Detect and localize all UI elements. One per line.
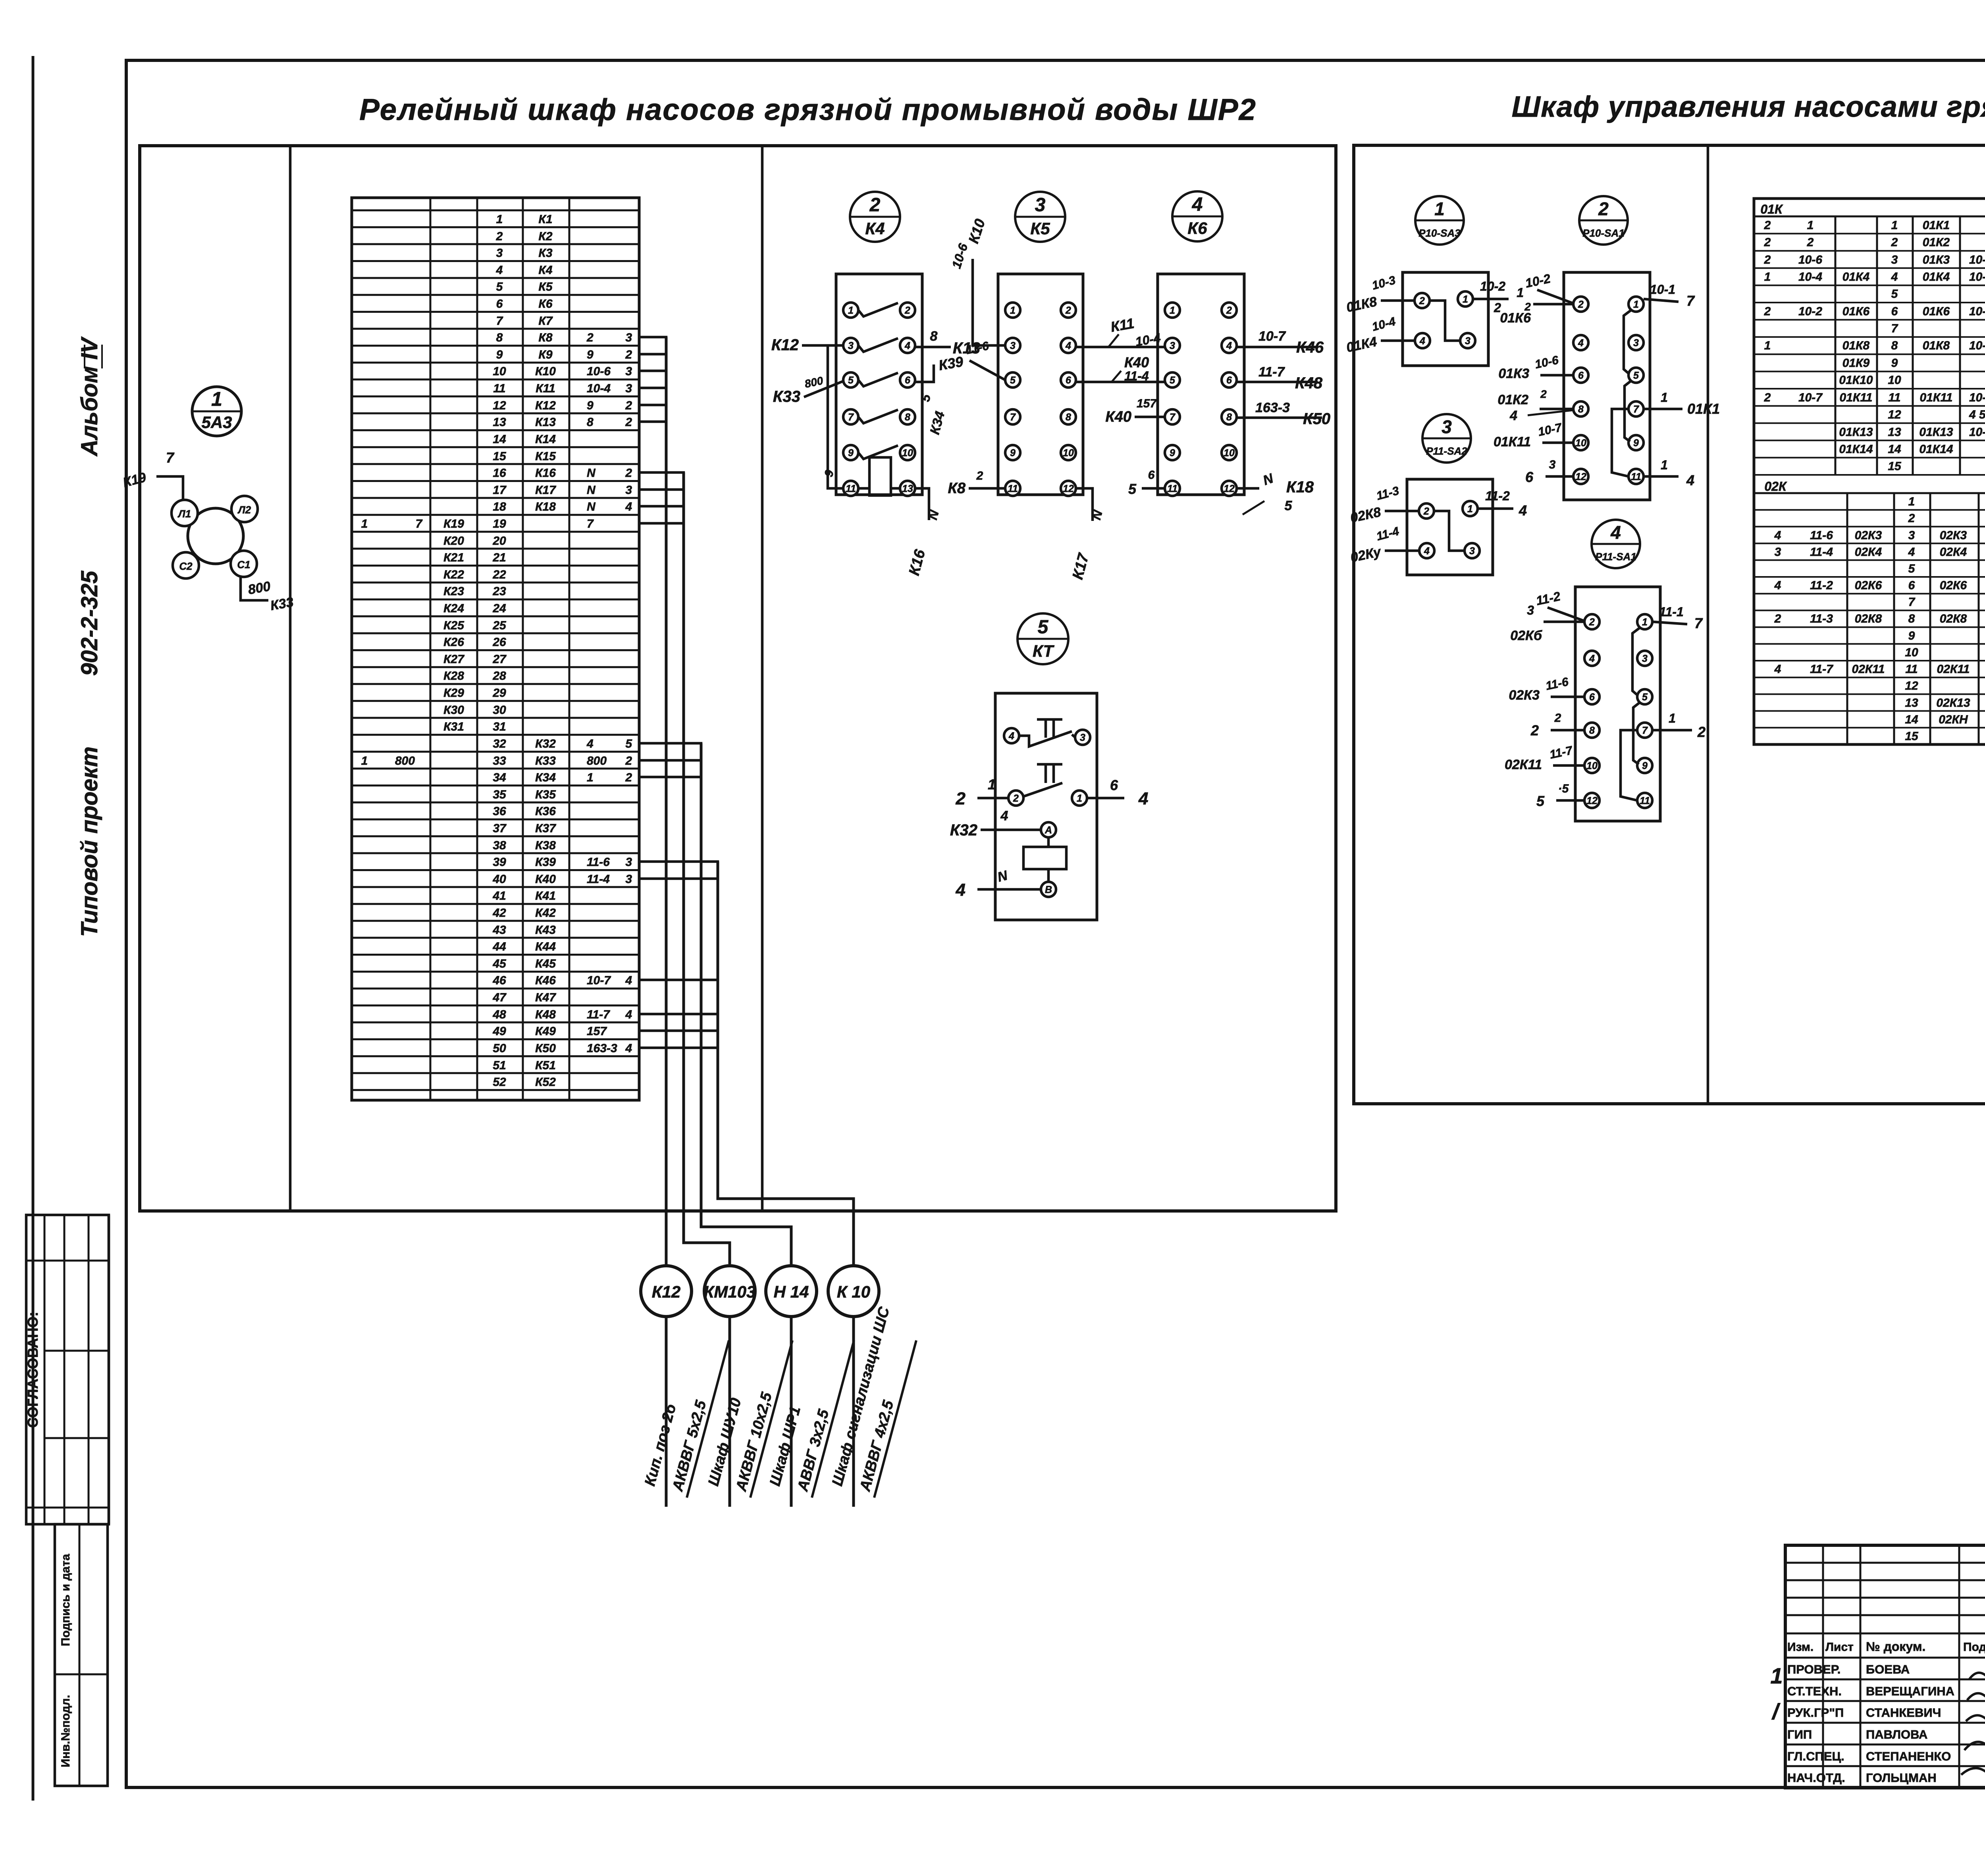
svg-text:10-2: 10-2: [1798, 305, 1822, 318]
K4 pin 3: [843, 338, 858, 353]
svg-text:Шкаф управления насосами гр: Шкаф управления насосами грязной промывн…: [1512, 90, 1985, 123]
wire P10-SA3 pin1 to 10-2: [1473, 298, 1509, 301]
svg-text:3: 3: [848, 340, 854, 351]
svg-text:К34: К34: [535, 771, 556, 784]
cable circle К 10: [828, 1266, 879, 1317]
svg-text:36: 36: [493, 805, 506, 818]
svg-text:5: 5: [848, 375, 854, 386]
svg-text:10: 10: [1586, 760, 1598, 771]
svg-text:902-2-325: 902-2-325: [77, 571, 102, 676]
K4 pin 2: [900, 303, 915, 318]
svg-text:1: 1: [1770, 1663, 1783, 1688]
svg-text:2: 2: [1764, 391, 1771, 404]
svg-text:10: 10: [1888, 374, 1901, 387]
svg-text:02К3: 02К3: [1855, 529, 1882, 542]
svg-text:КМ103: КМ103: [704, 1282, 756, 1301]
svg-text:К11: К11: [1109, 315, 1135, 335]
svg-text:10-2: 10-2: [1480, 279, 1505, 293]
table 02K header: [1754, 492, 1985, 494]
svg-text:2: 2: [586, 331, 594, 344]
wire K5 pin12 to K17: [1076, 488, 1093, 521]
svg-text:5А3: 5А3: [201, 413, 232, 432]
P11-SA1 pin 1: [1637, 614, 1652, 629]
P11-SA1 pin 4: [1584, 651, 1600, 666]
svg-text:10-7: 10-7: [1258, 329, 1286, 344]
svg-text:К33: К33: [773, 388, 800, 405]
P10-SA3 pin 3: [1460, 333, 1475, 348]
svg-text:2: 2: [1013, 793, 1019, 804]
svg-text:К13: К13: [535, 416, 556, 429]
svg-text:01К4: 01К4: [1842, 270, 1870, 283]
svg-text:3: 3: [625, 484, 632, 497]
svg-text:1: 1: [1517, 285, 1524, 300]
svg-text:9: 9: [587, 348, 594, 361]
svg-text:14: 14: [493, 433, 506, 446]
component marker 1/P10-SA3: [1415, 196, 1464, 245]
svg-text:02К3: 02К3: [1940, 529, 1967, 542]
svg-text:1: 1: [1467, 503, 1473, 515]
component marker 5/KT: [1018, 613, 1068, 664]
svg-text:К41: К41: [535, 889, 556, 902]
svg-text:4: 4: [1008, 731, 1014, 742]
P11-SA2 pin 2: [1419, 503, 1434, 519]
svg-text:Изм.: Изм.: [1787, 1641, 1813, 1654]
svg-text:N: N: [996, 868, 1010, 885]
svg-text:11-6: 11-6: [587, 856, 610, 869]
svg-text:2: 2: [625, 416, 632, 429]
K6 pin 7: [1165, 409, 1180, 424]
wire K6 pin6 to K48: [1237, 381, 1316, 384]
svg-text:5: 5: [496, 280, 503, 293]
svg-text:2: 2: [1419, 295, 1425, 307]
svg-text:СТ.ТЕХН.: СТ.ТЕХН.: [1787, 1684, 1842, 1698]
component marker 4/P11-SA1: [1592, 520, 1640, 568]
svg-text:К4: К4: [538, 264, 552, 277]
svg-text:12: 12: [1905, 679, 1918, 692]
svg-text:2: 2: [496, 230, 503, 243]
K5 pin 5: [1005, 372, 1020, 388]
wire K4 pin13 to K16: [915, 488, 929, 520]
wire K12 to K4 pin3: [802, 344, 843, 347]
K4 pin 1: [843, 303, 858, 318]
svg-text:38: 38: [493, 839, 506, 852]
svg-text:10-5 7: 10-5 7: [1969, 426, 1985, 439]
svg-text:15: 15: [493, 450, 507, 463]
svg-text:10-6: 10-6: [587, 365, 611, 378]
svg-text:01К3: 01К3: [1498, 366, 1529, 381]
wire K33 to K4 pin5: [804, 381, 843, 397]
wire 2 1 to KT pin2: [977, 797, 1008, 800]
svg-text:800: 800: [247, 579, 272, 598]
svg-text:ГЛ.СПЕЦ.: ГЛ.СПЕЦ.: [1787, 1749, 1844, 1763]
svg-text:К8: К8: [538, 331, 552, 344]
cable wire below К12: [665, 1317, 668, 1507]
svg-text:К25: К25: [443, 619, 464, 632]
svg-text:8: 8: [1226, 412, 1232, 423]
svg-text:5: 5: [1633, 370, 1639, 381]
svg-text:N: N: [587, 484, 596, 497]
motor terminal L2: [231, 496, 258, 522]
svg-text:К44: К44: [535, 940, 556, 953]
svg-text:01К13: 01К13: [1919, 426, 1953, 439]
P10-SA1 pin 10: [1573, 435, 1588, 450]
P11-SA1 pin 3: [1637, 651, 1652, 666]
component marker 4/K6: [1172, 191, 1222, 241]
svg-text:11-4: 11-4: [1810, 546, 1833, 559]
svg-text:К50: К50: [1303, 410, 1330, 428]
svg-text:10-6: 10-6: [949, 241, 971, 270]
K4 pin 5: [843, 372, 858, 388]
svg-text:6: 6: [1525, 469, 1534, 485]
svg-text:4: 4: [625, 1008, 632, 1021]
svg-text:К20: К20: [443, 534, 464, 548]
P10-SA3 internal link 2-3: [1430, 301, 1460, 341]
svg-text:К10: К10: [535, 365, 556, 378]
svg-text:8: 8: [1891, 339, 1898, 352]
svg-text:СТАНКЕВИЧ: СТАНКЕВИЧ: [1866, 1706, 1941, 1720]
svg-text:2: 2: [625, 399, 632, 412]
K4 pin 9: [843, 445, 858, 460]
K4 pin 10: [900, 445, 915, 460]
svg-text:7: 7: [1686, 293, 1695, 309]
svg-text:51: 51: [493, 1059, 506, 1072]
svg-text:02К: 02К: [1764, 479, 1787, 494]
svg-text:10-2: 10-2: [1524, 271, 1552, 291]
svg-text:К40: К40: [535, 873, 556, 886]
svg-text:1: 1: [211, 388, 222, 410]
svg-text:2: 2: [1807, 236, 1814, 249]
svg-text:10-7: 10-7: [1969, 391, 1985, 404]
wire P10-SA1 pin1 to 10-1 7: [1644, 299, 1679, 302]
svg-text:8: 8: [1578, 404, 1584, 415]
svg-text:5: 5: [1908, 562, 1916, 575]
svg-text:23: 23: [492, 585, 506, 598]
svg-text:11: 11: [1640, 795, 1650, 806]
svg-text:С2: С2: [179, 560, 193, 572]
svg-text:4: 4: [586, 737, 594, 750]
svg-text:163-3: 163-3: [587, 1042, 617, 1055]
svg-text:6: 6: [1908, 579, 1915, 592]
svg-text:К46: К46: [535, 974, 556, 987]
svg-text:2: 2: [1598, 199, 1609, 219]
svg-text:Р11-SA2: Р11-SA2: [1426, 445, 1467, 457]
svg-text:46: 46: [492, 974, 506, 987]
svg-text:К30: К30: [443, 704, 464, 717]
svg-text:Релейный шкаф насосов гряз: Релейный шкаф насосов грязной промывной …: [359, 93, 1257, 127]
cable circle Н 14: [766, 1266, 817, 1317]
svg-text:6: 6: [496, 297, 503, 310]
svg-text:2: 2: [1774, 612, 1781, 625]
svg-text:К47: К47: [535, 991, 556, 1004]
svg-text:К5: К5: [538, 280, 553, 293]
svg-text:01К9: 01К9: [1842, 357, 1870, 370]
terminal strip table of cabinet ShR2: [352, 198, 639, 1100]
svg-text:2: 2: [1540, 388, 1547, 400]
svg-text:2: 2: [625, 467, 632, 480]
svg-text:8: 8: [1589, 725, 1595, 736]
P10-SA1 pin 8: [1573, 401, 1588, 416]
svg-text:5: 5: [1170, 375, 1176, 386]
svg-text:11-6: 11-6: [1544, 675, 1570, 692]
svg-text:01К6: 01К6: [1842, 305, 1870, 318]
svg-text:7: 7: [1694, 615, 1703, 631]
svg-text:К16: К16: [906, 548, 929, 577]
svg-text:01К14: 01К14: [1919, 443, 1953, 456]
svg-text:2: 2: [1908, 512, 1915, 525]
K4 pin 7: [843, 409, 858, 424]
svg-text:4: 4: [1774, 663, 1781, 676]
svg-text:4: 4: [1578, 337, 1584, 349]
svg-text:1: 1: [587, 771, 594, 784]
P11-SA2 pin 3: [1465, 543, 1480, 558]
svg-text:2: 2: [1423, 506, 1429, 517]
svg-text:К10: К10: [965, 217, 988, 245]
svg-text:К43: К43: [535, 924, 556, 937]
svg-text:11: 11: [846, 483, 856, 494]
switch P11-SA2 body: [1407, 479, 1493, 575]
svg-text:1: 1: [361, 517, 368, 530]
svg-text:3: 3: [1170, 340, 1175, 351]
svg-text:02К11: 02К11: [1505, 757, 1542, 772]
svg-text:9: 9: [1642, 760, 1648, 771]
svg-text:А: А: [1045, 825, 1052, 836]
P10-SA1 pin 1: [1628, 297, 1644, 312]
svg-text:НАЧ.ОТД.: НАЧ.ОТД.: [1787, 1771, 1845, 1785]
cabinet ShR2 inner divider 1: [289, 146, 292, 1211]
svg-text:12: 12: [1575, 471, 1586, 482]
svg-text:01К14: 01К14: [1839, 443, 1873, 456]
svg-text:24: 24: [492, 602, 506, 615]
svg-text:2: 2: [1764, 253, 1771, 266]
svg-text:К27: К27: [443, 653, 464, 666]
wire 01K3 10-6 to P10-SA1 pin6: [1540, 374, 1573, 377]
svg-text:К18: К18: [1286, 478, 1314, 496]
svg-text:РУК.ГР"П: РУК.ГР"П: [1787, 1706, 1844, 1720]
KT pin 3: [1075, 730, 1090, 745]
K4 pin 4: [900, 338, 915, 353]
svg-text:7: 7: [1908, 596, 1916, 609]
svg-text:02К8: 02К8: [1855, 612, 1882, 625]
KT timer contact upper: [1037, 718, 1062, 721]
P10-SA1 pin 9: [1628, 435, 1644, 450]
cable wire below Н 14: [790, 1317, 793, 1507]
wire 6 3 to P10-SA1 pin12: [1546, 475, 1573, 478]
svg-text:29: 29: [492, 686, 506, 700]
switch P11-SA1 body: [1575, 587, 1660, 821]
wire K6 pin4 to K46: [1237, 346, 1316, 349]
wire KT pin1 to 6 4: [1087, 797, 1124, 800]
svg-text:К3: К3: [538, 247, 552, 260]
svg-text:800: 800: [804, 374, 825, 390]
svg-text:/: /: [1771, 1699, 1781, 1724]
svg-text:8: 8: [930, 329, 938, 344]
svg-text:01К2: 01К2: [1923, 236, 1950, 249]
svg-text:7: 7: [1633, 404, 1639, 415]
KT pin 4: [1004, 728, 1019, 743]
svg-text:52: 52: [493, 1076, 506, 1089]
wire 01K4 to P10-SA3 pin4: [1381, 339, 1415, 342]
svg-text:К9: К9: [538, 348, 552, 361]
P11-SA2 internal link 2-3: [1434, 511, 1465, 551]
svg-text:4: 4: [1589, 653, 1595, 664]
KT coil: [1023, 847, 1066, 869]
svg-text:4: 4: [956, 880, 966, 900]
svg-text:9: 9: [1891, 357, 1898, 370]
svg-text:9: 9: [587, 399, 594, 412]
svg-text:К17: К17: [1070, 551, 1093, 581]
svg-text:СТЕПАНЕНКО: СТЕПАНЕНКО: [1866, 1749, 1951, 1763]
svg-text:12: 12: [493, 399, 506, 412]
svg-text:2: 2: [1764, 305, 1771, 318]
svg-text:01К8: 01К8: [1842, 339, 1870, 352]
P10-SA1 pin 2: [1573, 297, 1588, 312]
svg-text:2: 2: [1589, 617, 1595, 628]
svg-text:ПАВЛОВА: ПАВЛОВА: [1866, 1728, 1927, 1741]
svg-text:1: 1: [361, 754, 368, 767]
K5 pin 12: [1061, 481, 1076, 496]
svg-text:9: 9: [1010, 447, 1016, 459]
wire 5 6 to K6 pin11: [1142, 487, 1165, 490]
svg-text:31: 31: [493, 720, 506, 733]
svg-text:2: 2: [1554, 711, 1561, 725]
svg-text:5: 5: [918, 392, 934, 403]
svg-text:10: 10: [1575, 438, 1586, 449]
svg-text:10: 10: [1905, 646, 1918, 659]
P11-SA2 pin 4: [1419, 543, 1434, 558]
svg-text:1: 1: [1669, 711, 1676, 725]
svg-text:К45: К45: [535, 957, 556, 970]
svg-text:В: В: [1045, 884, 1052, 895]
svg-text:К29: К29: [443, 686, 464, 700]
svg-text:СОГЛАСОВАНО:: СОГЛАСОВАНО:: [25, 1312, 41, 1428]
svg-text:Р10-SA1: Р10-SA1: [1582, 227, 1625, 239]
svg-text:№ докум.: № докум.: [1866, 1639, 1925, 1654]
svg-text:К8: К8: [948, 480, 966, 497]
svg-text:17: 17: [493, 484, 507, 497]
svg-text:1: 1: [1764, 339, 1771, 352]
svg-text:К32: К32: [950, 821, 977, 839]
wire motor C1 to K33: [241, 576, 268, 600]
svg-text:11: 11: [1888, 391, 1900, 404]
svg-text:19: 19: [493, 517, 506, 530]
connection table 01K 02K: [1754, 199, 1985, 744]
wire 02K4 to P11-SA2 pin4: [1385, 549, 1419, 552]
svg-text:К6: К6: [538, 297, 552, 310]
P11-SA1 pin 8: [1584, 723, 1600, 738]
svg-text:К12: К12: [652, 1282, 681, 1301]
svg-text:К38: К38: [535, 839, 556, 852]
svg-text:11: 11: [1008, 483, 1018, 494]
wire 2 2 to P11-SA1 pin8: [1551, 729, 1584, 732]
cabinet ShU10 enclosure: [1354, 145, 1985, 1104]
wire P10-SA1 pin11 to 1 4: [1644, 475, 1679, 478]
wire 01K8 to P10-SA3 pin2: [1381, 299, 1415, 302]
cable circle К12: [641, 1266, 692, 1317]
svg-text:К6: К6: [1187, 219, 1207, 237]
svg-text:11: 11: [1167, 483, 1178, 494]
svg-text:К24: К24: [443, 602, 464, 615]
wire 02K6 to P11-SA1 pin2: [1544, 621, 1584, 623]
svg-text:10-1: 10-1: [1650, 282, 1675, 297]
wire K40 157 to K6 pin7: [1135, 416, 1165, 418]
svg-text:3: 3: [1465, 335, 1470, 347]
paper border left margin line: [32, 56, 35, 1801]
wire 5 5 to P11-SA1 pin12: [1556, 799, 1584, 802]
svg-text:15: 15: [1888, 460, 1902, 473]
svg-text:К42: К42: [535, 906, 556, 920]
wire K5 pin4 to K6 pin3: [1076, 346, 1168, 349]
svg-text:1: 1: [1642, 617, 1648, 628]
K6 pin 5: [1165, 372, 1180, 388]
P11-SA1 pin 10: [1584, 758, 1600, 773]
svg-text:13: 13: [493, 416, 506, 429]
time relay KT body: [995, 693, 1097, 920]
wire K4 pin3 branch to pin11: [828, 345, 843, 488]
cable wire below КМ103: [728, 1317, 731, 1507]
svg-text:10-6: 10-6: [1798, 253, 1822, 266]
svg-text:4: 4: [1138, 789, 1148, 808]
svg-text:6: 6: [1110, 777, 1118, 793]
svg-text:9: 9: [848, 447, 854, 459]
wire K6 pin12 to K18: [1237, 487, 1259, 490]
svg-text:Л1: Л1: [177, 508, 191, 520]
svg-text:4 5: 4 5: [1969, 408, 1985, 421]
cable wire below К 10: [852, 1317, 855, 1507]
svg-text:1: 1: [1908, 495, 1915, 508]
svg-text:40: 40: [492, 873, 506, 886]
svg-text:8: 8: [1908, 612, 1915, 625]
P11-SA1 pin 9: [1637, 758, 1652, 773]
svg-text:Л2: Л2: [237, 504, 251, 516]
svg-text:К40: К40: [1105, 409, 1131, 425]
svg-text:3: 3: [625, 382, 632, 395]
svg-text:К23: К23: [443, 585, 464, 598]
svg-text:К34: К34: [927, 410, 948, 436]
svg-text:К40: К40: [1124, 354, 1149, 370]
K4 pin 8: [900, 409, 915, 424]
P10-SA1 internal links: [1624, 310, 1632, 374]
svg-text:3: 3: [1775, 546, 1781, 559]
svg-text:7: 7: [496, 314, 503, 328]
svg-text:10-3: 10-3: [1370, 274, 1397, 292]
svg-text:4: 4: [496, 264, 503, 277]
svg-text:ПРОВЕР.: ПРОВЕР.: [1787, 1662, 1840, 1676]
svg-text:К33: К33: [535, 754, 556, 767]
svg-text:К22: К22: [443, 568, 464, 581]
KT pin A: [1041, 822, 1056, 837]
wire K4 pin6 jog K34: [915, 364, 934, 382]
svg-text:3: 3: [625, 873, 632, 886]
P11-SA1 pin 6: [1584, 689, 1600, 704]
svg-text:3: 3: [1633, 337, 1639, 349]
svg-text:01К11: 01К11: [1494, 434, 1531, 449]
KT pin B: [1041, 882, 1056, 897]
svg-text:1: 1: [848, 305, 854, 316]
svg-text:5: 5: [1038, 617, 1049, 638]
inventory stamp table: [55, 1524, 108, 1786]
svg-text:163-3: 163-3: [1255, 400, 1290, 415]
svg-text:9: 9: [1908, 629, 1915, 642]
svg-text:7: 7: [848, 412, 854, 423]
K6 pin 1: [1165, 303, 1180, 318]
svg-text:С1: С1: [237, 559, 250, 571]
svg-text:10-7: 10-7: [587, 974, 611, 987]
svg-text:02К11: 02К11: [1937, 663, 1970, 676]
svg-text:3: 3: [1908, 529, 1915, 542]
svg-text:01К13: 01К13: [1839, 426, 1873, 439]
svg-text:4: 4: [1774, 579, 1781, 592]
K5 pin 6: [1061, 372, 1076, 388]
